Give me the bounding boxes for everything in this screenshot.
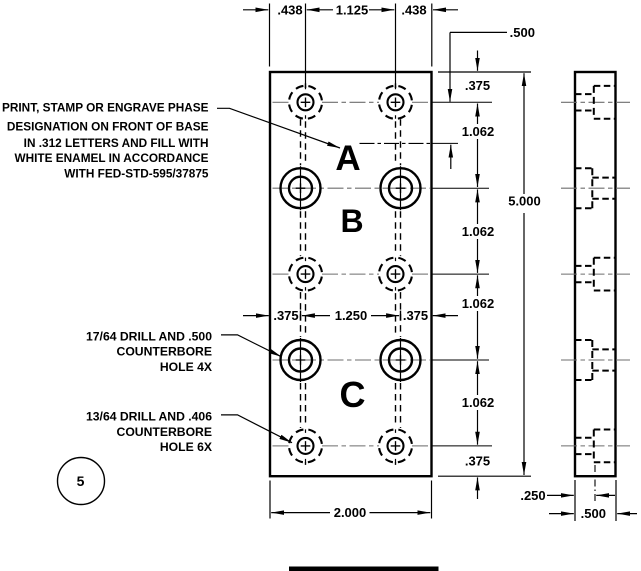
dim .500 bottom right arrow: [617, 513, 637, 515]
large hole row2 right: [381, 166, 421, 210]
top dim extension line plate left edge: [269, 4, 271, 67]
svg-text:.375: .375: [465, 453, 490, 468]
mid dim right outside arrow: [433, 315, 458, 317]
small hole row5 right: [379, 429, 412, 462]
svg-text:2.000: 2.000: [334, 505, 367, 520]
svg-text:B: B: [340, 203, 363, 239]
side view ext line left: [574, 480, 576, 521]
row 1 horizontal centerline: [273, 101, 493, 103]
small hole row5 left: [289, 429, 322, 462]
dim 5.000 line upper: [523, 73, 525, 194]
dim 1.125 left arrow: [307, 9, 333, 11]
side view row3 gray centerline: [561, 273, 630, 275]
small hole row3 left: [289, 258, 322, 291]
svg-text:COUNTERBORE: COUNTERBORE: [117, 345, 212, 359]
ext line bottom right: [431, 481, 433, 519]
svg-text:DESIGNATION ON FRONT OF BASE: DESIGNATION ON FRONT OF BASE: [7, 120, 209, 134]
svg-text:HOLE 6X: HOLE 6X: [160, 440, 213, 454]
mid dim 1.250 right arrow: [371, 315, 399, 317]
svg-text:WHITE ENAMEL IN ACCORDANCE: WHITE ENAMEL IN ACCORDANCE: [15, 151, 209, 165]
svg-text:IN .312 LETTERS AND FILL WITH: IN .312 LETTERS AND FILL WITH: [24, 136, 209, 150]
svg-text:.375: .375: [403, 308, 428, 323]
row 4 horizontal centerline: [273, 359, 490, 361]
side view row2 hidden hole: [575, 168, 616, 208]
svg-text:PRINT, STAMP OR ENGRAVE PHASE: PRINT, STAMP OR ENGRAVE PHASE: [2, 101, 209, 115]
small-hole column centerline left: [305, 83, 307, 465]
svg-text:A: A: [335, 139, 360, 178]
top dim extension line col1: [305, 4, 307, 89]
dim 5.000 line lower: [523, 213, 525, 475]
mid dim left outside arrow: [243, 315, 269, 317]
side view row3 hidden hole: [575, 258, 616, 291]
dim .500 bottom left arrow: [549, 513, 574, 515]
dim 1.062 c up-arrow: [477, 275, 479, 296]
svg-text:.438: .438: [401, 2, 426, 17]
side view row4 hidden hole: [575, 340, 616, 380]
bottom border bar: [289, 567, 439, 571]
svg-text:.375: .375: [273, 308, 298, 323]
row 3 horizontal centerline: [273, 273, 490, 275]
dim 1.062 d up-arrow: [477, 361, 479, 395]
mid dim 1.250 left arrow: [302, 315, 330, 317]
mid dim tick right: [400, 311, 402, 321]
ext line bottom left: [269, 481, 271, 519]
side view row5 gray centerline: [561, 445, 630, 447]
callout2 leader line: [221, 415, 292, 443]
svg-text:.500: .500: [510, 25, 535, 40]
large-hole column centerline left: [300, 119, 302, 428]
side view row5 hidden hole: [575, 430, 616, 463]
side view ext line right: [615, 480, 617, 521]
dim .438 right arrow: [433, 9, 458, 11]
small hole row1 left (13/64 drill, .406 cbore): [289, 86, 322, 119]
ext line bottom edge right: [438, 475, 531, 477]
dim 1.062 b down-arrow: [477, 239, 479, 273]
svg-text:1.062: 1.062: [462, 224, 495, 239]
side view outline: [575, 72, 616, 476]
svg-text:13/64 DRILL AND .406: 13/64 DRILL AND .406: [86, 410, 212, 424]
large-hole column centerline right: [400, 119, 402, 428]
small hole row1 right: [379, 86, 412, 119]
dim .250 left-point arrow: [596, 494, 615, 496]
dim 2.000 left arrow: [271, 512, 330, 514]
side view row2 gray centerline: [561, 187, 630, 189]
side view row4 gray centerline: [561, 359, 630, 361]
dim 1.062 b up-arrow: [477, 189, 479, 224]
svg-text:1.125: 1.125: [336, 2, 369, 17]
dim .438 left arrow: [243, 9, 268, 11]
small hole row3 right: [379, 258, 412, 291]
svg-text:1.250: 1.250: [335, 308, 368, 323]
ext line top edge right: [438, 71, 531, 73]
plate outline (front view): [270, 72, 432, 476]
balloon circle 5: [58, 458, 105, 505]
dim .500 down arrow: [449, 32, 451, 101]
svg-text:COUNTERBORE: COUNTERBORE: [117, 425, 212, 439]
dim 1.062 a down-arrow: [477, 139, 479, 187]
dim .250 right-point arrow: [547, 494, 574, 496]
row 2 horizontal centerline: [273, 187, 490, 189]
dim .500 up arrow: [450, 145, 452, 169]
svg-text:17/64 DRILL AND .500: 17/64 DRILL AND .500: [86, 329, 212, 343]
callout: 17/64 drill and .500 counterbore hole 4X: [86, 329, 213, 374]
svg-text:HOLE 4X: HOLE 4X: [160, 360, 213, 374]
large hole row4 right: [381, 338, 421, 382]
svg-text:.438: .438: [277, 2, 302, 17]
svg-text:1.062: 1.062: [462, 395, 495, 410]
dim .500 leader: [450, 31, 507, 33]
letter A position line: [360, 142, 459, 144]
dim .375 bottom up-arrow: [477, 477, 479, 499]
svg-text:.375: .375: [465, 78, 490, 93]
dim 1.125 right arrow: [369, 9, 394, 11]
svg-text:.250: .250: [520, 488, 545, 503]
top dim extension line plate right edge: [431, 4, 433, 67]
dim 1.062 a up-arrow: [477, 104, 479, 125]
note leader line: [217, 108, 340, 148]
svg-text:1.062: 1.062: [462, 296, 495, 311]
svg-text:5.000: 5.000: [508, 194, 541, 209]
side view row1 hidden hole: [575, 86, 616, 119]
dim 1.062 d down-arrow: [477, 410, 479, 445]
dim 2.000 right arrow: [370, 512, 431, 514]
small-hole column centerline right: [395, 83, 397, 465]
side view row1 gray centerline: [561, 101, 630, 103]
large hole row4 left: [281, 338, 321, 382]
callout1 leader line: [221, 335, 282, 357]
note: phase designation engraving: [2, 101, 209, 181]
svg-text:C: C: [340, 374, 366, 415]
dim 1.062 c down-arrow: [477, 311, 479, 359]
svg-text:1.062: 1.062: [462, 124, 495, 139]
side view center dashed extension: [594, 465, 596, 502]
row 5 horizontal centerline: [273, 445, 493, 447]
large hole row2 left (17/64 drill, .500 cbore): [281, 166, 321, 210]
svg-text:WITH FED-STD-595/37875: WITH FED-STD-595/37875: [64, 167, 209, 181]
top dim extension line col2: [395, 4, 397, 89]
dim .375 top down-arrow: [477, 51, 479, 71]
callout: 13/64 drill and .406 counterbore hole 6X: [86, 410, 213, 454]
svg-text:5: 5: [77, 473, 85, 489]
svg-text:.500: .500: [581, 506, 606, 521]
mid dim tick left: [300, 311, 302, 321]
